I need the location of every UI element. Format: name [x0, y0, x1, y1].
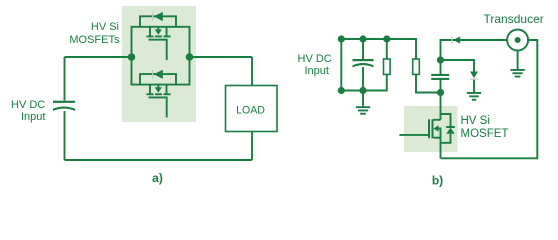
- capacitor C1 bottom plate (curved): [53, 106, 75, 110]
- LOAD box: [226, 86, 278, 132]
- MOSFET Q1 channel dash body: [155, 36, 162, 38]
- label HV Si MOSFETs: [69, 21, 120, 46]
- MOSFET Q3 substrate arrow: [434, 125, 439, 132]
- MOSFET Q2 gate lead: [166, 98, 168, 117]
- ground symbol (C2) bar2: [358, 110, 368, 112]
- wire: diode-to-ground stem: [473, 79, 475, 93]
- wire: resistor R1 top lead: [386, 39, 388, 59]
- MOSFET Q1 drain stub: [149, 27, 151, 36]
- diode D3 faint cathode bar: [470, 79, 478, 80]
- wire: left input leg: [340, 39, 342, 91]
- wire: ground stem (C2): [362, 91, 364, 107]
- ground symbol (D3) bar2: [469, 95, 479, 97]
- wire: transducer to ground stem: [517, 51, 519, 70]
- transducer arrow faint cathode bar: [451, 37, 452, 44]
- MOSFET Q3 drain lead: [434, 119, 441, 121]
- coupling capacitor C3 bottom plate: [431, 78, 449, 80]
- MOSFET Q1 substrate line: [157, 27, 159, 30]
- wire: top rail b: [341, 39, 416, 59]
- label HV DC Input (a): [11, 99, 45, 123]
- svg-text:LOAD: LOAD: [236, 104, 265, 116]
- wire: MOSFET drain vertical: [440, 93, 442, 120]
- arrow to transducer: [453, 36, 460, 43]
- wire: coupling cap vertical: [440, 60, 442, 74]
- svg-text:Input: Input: [21, 111, 45, 123]
- svg-text:MOSFETs: MOSFETs: [69, 34, 120, 46]
- node left junction: [128, 53, 136, 61]
- wire: resistor R2 bottom lead to drain node: [416, 75, 441, 93]
- wire: left vertical below capacitor: [64, 111, 66, 160]
- node bottom rail left terminal: [338, 87, 345, 94]
- wire: input left vertical above capacitor: [64, 57, 66, 101]
- svg-text:Input: Input: [305, 65, 329, 77]
- transducer circle: [507, 30, 528, 51]
- wire: protection diode branch: [441, 60, 475, 72]
- resistor R1 body: [384, 59, 391, 74]
- diode D2 arrow: [154, 70, 163, 79]
- wire: capacitor C2 bottom lead: [362, 67, 364, 91]
- svg-text:Transducer: Transducer: [484, 12, 544, 26]
- wire: capacitor C2 top lead: [362, 39, 364, 60]
- wire: transducer right return: [441, 40, 538, 158]
- wire: bottom-left rail: [341, 75, 387, 91]
- coupling capacitor C3 top plate: [431, 74, 449, 76]
- node right junction: [186, 53, 194, 61]
- MOSFET Q1 source stub: [166, 27, 168, 36]
- wire: input top rail left: [65, 56, 132, 58]
- diode D2 loop: [140, 74, 176, 85]
- transducer center dot: [515, 37, 521, 43]
- ground symbol (C2) bar1: [356, 106, 370, 108]
- highlight box (MOSFET): [404, 106, 458, 152]
- transducer ground bar1: [510, 69, 524, 71]
- wire: bottom rail: [65, 159, 253, 161]
- svg-text:HV Si: HV Si: [461, 115, 490, 127]
- svg-text:a): a): [152, 171, 163, 185]
- node C2 bottom: [359, 87, 366, 94]
- node top rail left terminal: [338, 35, 345, 42]
- ground symbol (D3) bar3: [472, 99, 476, 101]
- diode D1 faint cathode bar: [152, 12, 153, 21]
- label HV DC Input (b): [298, 53, 332, 77]
- label HV Si MOSFET: [461, 115, 509, 140]
- capacitor C1 top plate: [53, 101, 75, 103]
- MOSFET Q1 gate bar: [149, 39, 168, 41]
- body diode arrow: [446, 128, 455, 134]
- wire: load top vertical: [251, 57, 253, 86]
- MOSFET Q3 source lead: [434, 137, 441, 139]
- body diode branch: [441, 114, 451, 127]
- highlight box (MOSFET pair): [122, 6, 196, 122]
- diode D1 loop: [140, 16, 176, 27]
- MOSFET Q1 gate lead: [166, 41, 168, 61]
- MOSFET Q2 gate bar: [149, 97, 168, 99]
- wire: load bottom vertical: [251, 132, 253, 161]
- transducer ground bar3: [515, 76, 521, 78]
- body diode cathode bar: [446, 126, 455, 128]
- diode D1 arrow: [154, 12, 163, 21]
- MOSFET Q3 substrate tie: [438, 129, 441, 138]
- transducer ground bar2: [513, 72, 523, 74]
- node C2 top: [359, 35, 366, 42]
- MOSFET Q1 channel dash source: [164, 36, 171, 38]
- MOSFET Q2 source stub: [166, 85, 168, 94]
- wire: top rail right: [190, 56, 253, 58]
- node coupling cap top: [437, 56, 444, 63]
- diode D2 faint cathode bar: [152, 70, 153, 79]
- wire: transducer branch: [441, 40, 508, 60]
- capacitor C2 top plate: [353, 59, 374, 61]
- MOSFET Q3 gate lead: [399, 134, 428, 136]
- svg-text:HV Si: HV Si: [91, 21, 119, 33]
- svg-text:MOSFET: MOSFET: [461, 128, 509, 140]
- svg-text:b): b): [432, 174, 443, 188]
- protection diode D3 arrow: [470, 72, 478, 79]
- capacitor C2 bottom plate (curved): [353, 63, 374, 67]
- MOSFET Q3 gate bar: [428, 119, 430, 138]
- ground symbol (D3) bar1: [467, 92, 481, 94]
- MOSFET Q2 channel dash source: [164, 93, 171, 95]
- MOSFET Q1 channel dash drain: [147, 36, 154, 38]
- ground symbol (C2) bar3: [360, 113, 366, 115]
- wire: MOSFET source down to rail: [440, 138, 442, 159]
- MOSFET Q2 substrate arrow: [155, 87, 162, 92]
- svg-text:HV DC: HV DC: [298, 53, 332, 65]
- MOSFET Q1 outer loop: [132, 27, 190, 57]
- MOSFET Q2 drain stub: [149, 85, 151, 94]
- MOSFET Q3 channel bar: [432, 119, 434, 138]
- MOSFET Q2 channel dash drain: [147, 93, 154, 95]
- MOSFET Q1 substrate arrow: [155, 29, 162, 34]
- MOSFET Q2 outer loop: [132, 57, 190, 85]
- node drain: [437, 89, 444, 96]
- node R1 top: [383, 35, 390, 42]
- MOSFET Q2 substrate line: [157, 85, 159, 88]
- svg-text:HV DC: HV DC: [11, 99, 45, 111]
- MOSFET Q2 channel dash body: [155, 93, 162, 95]
- resistor R2 body: [413, 59, 420, 74]
